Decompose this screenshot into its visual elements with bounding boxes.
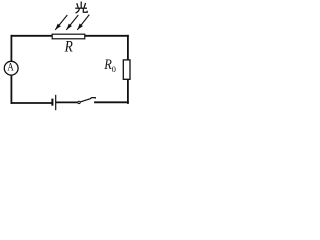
- svg-text:0: 0: [112, 64, 116, 74]
- svg-text:A: A: [7, 62, 14, 74]
- svg-text:R: R: [64, 39, 73, 56]
